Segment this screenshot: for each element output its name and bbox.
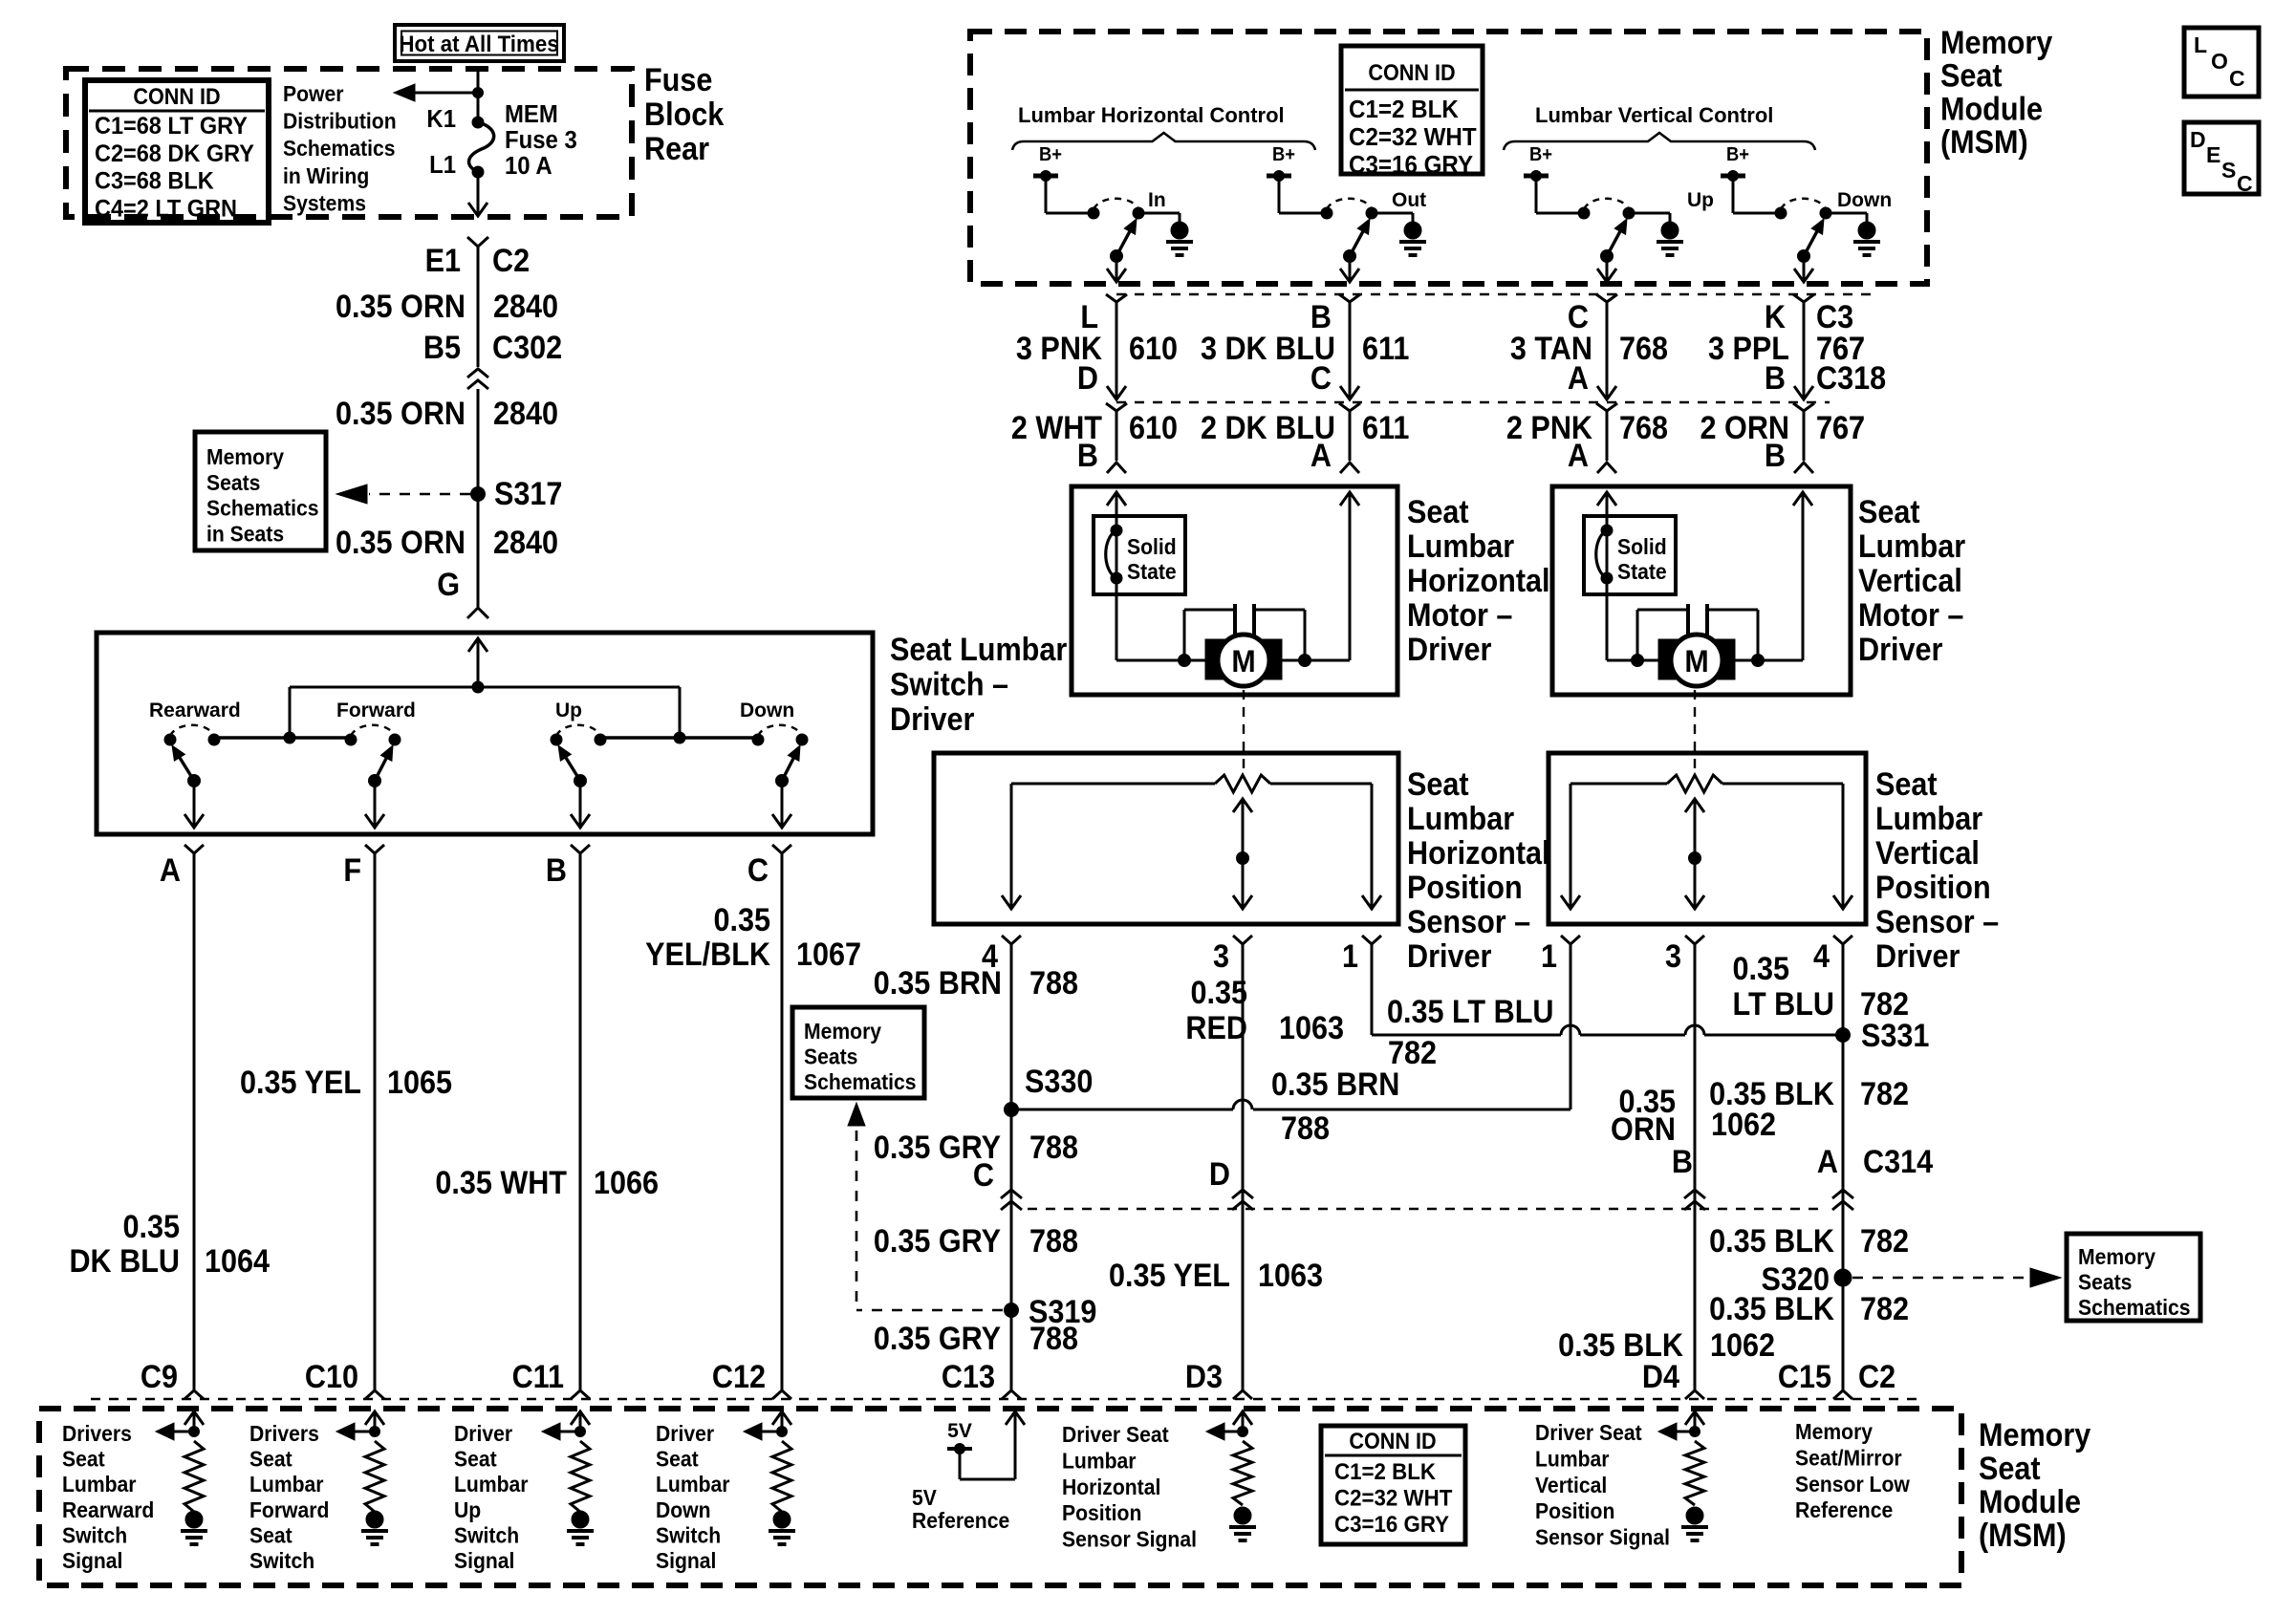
svg-text:782: 782 (1860, 1291, 1909, 1327)
svg-text:Drivers: Drivers (62, 1421, 132, 1446)
svg-text:C: C (973, 1157, 994, 1194)
svg-text:G: G (437, 567, 460, 603)
svg-text:CONN ID: CONN ID (133, 83, 220, 109)
svg-text:Sensor Signal: Sensor Signal (1062, 1527, 1197, 1552)
wire: fuse output with down arrow (477, 172, 480, 215)
svg-text:0.35 YEL: 0.35 YEL (1109, 1258, 1230, 1294)
splice S330 (1005, 1103, 1019, 1117)
svg-text:5V: 5V (912, 1485, 937, 1510)
svg-text:Lumbar: Lumbar (1875, 801, 1983, 837)
svg-text:0.35 BRN: 0.35 BRN (874, 965, 1002, 1001)
svg-text:Down: Down (1837, 189, 1892, 211)
svg-text:C3=68 BLK: C3=68 BLK (95, 168, 214, 195)
svg-text:Seat: Seat (1875, 766, 1938, 803)
svg-text:Sensor –: Sensor – (1875, 904, 1999, 940)
svg-text:B+: B+ (1726, 144, 1749, 165)
splice S331 (1836, 1028, 1851, 1043)
module box: Memory Seat Module (MSM) bottom (39, 1409, 1961, 1585)
svg-text:C2=68 DK GRY: C2=68 DK GRY (95, 140, 254, 167)
svg-text:C: C (1310, 360, 1332, 397)
dashed link: vertical motor to position sensor (1694, 690, 1696, 776)
position sensor: Seat Lumbar Vertical Position Sensor - Driver (1549, 753, 1866, 924)
svg-text:C2=32 WHT: C2=32 WHT (1349, 123, 1477, 151)
svg-text:Reference: Reference (1795, 1497, 1893, 1522)
wire: switch common entry arrow (468, 638, 487, 652)
svg-text:M: M (1231, 644, 1255, 678)
wire: ORN 2840 segment E1-C2 to B5-C302 (477, 247, 480, 367)
svg-text:0.35 YEL: 0.35 YEL (240, 1065, 361, 1101)
svg-text:1: 1 (1342, 938, 1358, 975)
svg-text:Driver Seat: Driver Seat (1062, 1422, 1169, 1447)
svg-text:A: A (160, 852, 181, 889)
svg-text:Position: Position (1407, 870, 1523, 906)
svg-text:Switch –: Switch – (890, 666, 1008, 702)
svg-text:1062: 1062 (1711, 1107, 1776, 1143)
svg-text:Driver: Driver (1875, 938, 1960, 975)
svg-text:C: C (2237, 171, 2253, 196)
svg-text:Lumbar: Lumbar (1535, 1447, 1610, 1472)
svg-text:C314: C314 (1863, 1144, 1933, 1180)
svg-text:4: 4 (1813, 938, 1830, 975)
page ref box: LOC (2184, 28, 2259, 97)
svg-text:RED: RED (1185, 1010, 1247, 1046)
wire: link up-down contacts (600, 736, 757, 740)
svg-text:2840: 2840 (493, 525, 558, 561)
svg-text:A: A (1817, 1144, 1838, 1180)
svg-text:C1=2 BLK: C1=2 BLK (1334, 1458, 1436, 1484)
reference box: Memory Seats Schematics (right) (2067, 1234, 2200, 1321)
svg-text:C3=16 GRY: C3=16 GRY (1334, 1511, 1450, 1537)
svg-text:Seats: Seats (2078, 1270, 2132, 1295)
svg-text:MEM: MEM (505, 100, 558, 128)
connector + wire: switch pin C (772, 845, 791, 853)
svg-text:C302: C302 (492, 330, 562, 366)
wire column K: 3 PPL 767 / 2 ORN 767 (1793, 294, 1814, 302)
connector id table (MSM bottom) (1321, 1426, 1465, 1544)
svg-text:Forward: Forward (336, 700, 416, 721)
svg-text:788: 788 (1029, 1223, 1078, 1260)
svg-text:Lumbar Vertical Control: Lumbar Vertical Control (1535, 103, 1773, 127)
svg-text:Seats: Seats (206, 470, 260, 495)
svg-text:Horizontal: Horizontal (1407, 835, 1550, 872)
wire column C: 3 TAN 768 / 2 PNK 768 (1596, 294, 1617, 302)
connector: sensor pin 4 at x=1058 (1002, 936, 1021, 944)
svg-text:Seats: Seats (804, 1044, 857, 1069)
svg-text:610: 610 (1129, 410, 1178, 446)
svg-text:0.35: 0.35 (1190, 975, 1247, 1011)
svg-text:Driver: Driver (1407, 632, 1492, 668)
svg-text:C4=2 LT GRN: C4=2 LT GRN (95, 196, 237, 223)
dashed link: horizontal motor to position sensor (1243, 690, 1245, 776)
svg-text:O: O (2211, 49, 2228, 74)
svg-text:1065: 1065 (387, 1065, 452, 1101)
svg-text:Solid: Solid (1127, 534, 1177, 559)
wire: vertical sensor pin 3 column (ORN 1062) (1694, 944, 1697, 1390)
connector: switch pin G (467, 608, 488, 618)
svg-text:C1=2 BLK: C1=2 BLK (1349, 96, 1459, 123)
svg-text:Up: Up (454, 1497, 481, 1522)
svg-text:A: A (1568, 438, 1589, 474)
svg-text:Seat: Seat (1407, 494, 1469, 530)
wire: vertical sensor pin 1 to S330 branch (1570, 944, 1572, 1109)
svg-text:3: 3 (1665, 938, 1681, 975)
svg-text:C11: C11 (512, 1359, 564, 1395)
svg-text:Driver: Driver (890, 701, 975, 738)
svg-text:Seat: Seat (656, 1447, 699, 1472)
svg-text:C2: C2 (492, 243, 530, 279)
svg-text:Block: Block (644, 97, 725, 133)
svg-text:0.35 BLK: 0.35 BLK (1709, 1223, 1834, 1260)
svg-text:1066: 1066 (594, 1165, 659, 1201)
svg-text:782: 782 (1860, 1223, 1909, 1260)
svg-text:Seat: Seat (1979, 1451, 2041, 1487)
svg-text:A: A (1568, 360, 1589, 397)
svg-text:D: D (1209, 1156, 1230, 1193)
connector: sensor pin 3 at x=1773 (1685, 936, 1704, 944)
splice S320 (1834, 1269, 1852, 1286)
svg-text:Vertical: Vertical (1875, 835, 1980, 872)
svg-text:0.35 LT BLU: 0.35 LT BLU (1387, 994, 1553, 1030)
svg-text:L1: L1 (429, 151, 456, 179)
svg-text:611: 611 (1362, 410, 1409, 446)
svg-text:LT BLU: LT BLU (1733, 986, 1834, 1023)
svg-text:Signal: Signal (656, 1548, 716, 1573)
svg-text:Module: Module (1979, 1484, 2081, 1520)
connector: sensor pin 1 at x=1435 (1362, 936, 1381, 944)
connector id table (fuse block): C1=68 LT GRY etc (85, 80, 269, 223)
svg-text:Seat: Seat (1407, 766, 1469, 803)
connector + wire: switch pin A (184, 845, 204, 853)
svg-text:Rear: Rear (644, 131, 709, 167)
svg-text:Lumbar: Lumbar (1858, 528, 1966, 565)
svg-text:S330: S330 (1025, 1064, 1093, 1100)
svg-text:E: E (2206, 142, 2220, 167)
svg-text:Memory: Memory (1979, 1417, 2090, 1453)
reference box: Memory Seats Schematics (mid) (792, 1007, 924, 1098)
svg-text:Seat: Seat (249, 1447, 292, 1472)
svg-text:1067: 1067 (796, 937, 861, 973)
wire: sensor signal D column (YEL 1063) (1242, 944, 1245, 1390)
connector line: MSM C2 row (1116, 293, 1872, 295)
svg-text:Position: Position (1062, 1500, 1141, 1525)
svg-text:State: State (1617, 559, 1667, 584)
svg-text:Motor –: Motor – (1407, 597, 1512, 634)
svg-text:Vertical: Vertical (1858, 563, 1962, 599)
svg-text:Sensor Low: Sensor Low (1795, 1472, 1911, 1497)
svg-text:D: D (1077, 360, 1098, 397)
svg-text:C2=32 WHT: C2=32 WHT (1334, 1485, 1452, 1511)
svg-text:Seat: Seat (1858, 494, 1920, 530)
svg-text:Lumbar: Lumbar (62, 1472, 137, 1497)
svg-text:788: 788 (1029, 1321, 1078, 1357)
svg-text:C: C (747, 852, 769, 889)
connector + wire: switch pin B (571, 845, 590, 853)
svg-text:C13: C13 (942, 1359, 995, 1395)
label box: Hot at All Times (395, 25, 564, 61)
svg-text:0.35 ORN: 0.35 ORN (336, 396, 466, 432)
svg-text:B: B (1765, 360, 1786, 397)
svg-text:Down: Down (656, 1497, 711, 1522)
svg-text:Seat: Seat (1940, 57, 2003, 94)
svg-text:1: 1 (1541, 938, 1557, 975)
svg-text:788: 788 (1029, 1130, 1078, 1166)
dashed reference arrow to S317 (369, 493, 470, 496)
svg-text:Switch: Switch (656, 1523, 721, 1548)
svg-text:0.35 GRY: 0.35 GRY (874, 1223, 1002, 1260)
svg-text:Driver: Driver (1407, 938, 1492, 975)
svg-text:Lumbar: Lumbar (1407, 528, 1515, 565)
svg-text:Signal: Signal (62, 1548, 122, 1573)
svg-text:D: D (2190, 127, 2206, 152)
svg-text:Seat Lumbar: Seat Lumbar (890, 632, 1068, 668)
svg-text:Down: Down (740, 700, 794, 721)
svg-text:0.35 BLK: 0.35 BLK (1709, 1291, 1834, 1327)
wire: link rearward-forward contacts (213, 736, 351, 740)
svg-text:1063: 1063 (1258, 1258, 1323, 1294)
connector line: C318 row (1116, 401, 1830, 403)
svg-text:0.35 WHT: 0.35 WHT (435, 1165, 567, 1201)
wire: switch common bus (290, 686, 680, 689)
svg-text:768: 768 (1619, 331, 1668, 367)
svg-text:Memory: Memory (2078, 1244, 2156, 1269)
fuse block rear dashed box (66, 69, 632, 217)
svg-text:Motor –: Motor – (1858, 597, 1963, 634)
svg-text:611: 611 (1362, 331, 1409, 367)
svg-text:Lumbar Horizontal Control: Lumbar Horizontal Control (1018, 103, 1285, 127)
svg-text:Memory: Memory (1795, 1419, 1874, 1444)
component box: Seat Lumbar Switch - Driver (97, 633, 873, 834)
svg-text:782: 782 (1860, 986, 1909, 1023)
svg-text:Fuse: Fuse (644, 62, 712, 98)
wire: vertical sensor pin 4 column (BLK 782) (1842, 944, 1845, 1390)
svg-text:K1: K1 (426, 105, 456, 133)
svg-text:Forward: Forward (249, 1497, 329, 1522)
page ref box: DESC (2184, 122, 2259, 194)
dashed reference arrow from S320 (1852, 1277, 2026, 1280)
svg-text:Drivers: Drivers (249, 1421, 319, 1446)
svg-text:C2: C2 (1858, 1359, 1895, 1395)
svg-text:CONN ID: CONN ID (1368, 59, 1455, 85)
svg-text:Memory: Memory (804, 1019, 882, 1044)
svg-text:C1=68 LT GRY: C1=68 LT GRY (95, 113, 248, 140)
position sensor: Seat Lumbar Horizontal Position Sensor - Driver (934, 753, 1398, 924)
svg-text:in Wiring: in Wiring (283, 163, 369, 188)
svg-text:F: F (343, 852, 361, 889)
svg-text:DK BLU: DK BLU (69, 1243, 180, 1280)
svg-text:B: B (1765, 438, 1786, 474)
svg-text:Schematics: Schematics (206, 496, 319, 521)
svg-text:Schematics: Schematics (804, 1069, 917, 1094)
svg-text:5V: 5V (947, 1420, 972, 1442)
svg-text:B5: B5 (423, 330, 461, 366)
svg-text:2840: 2840 (493, 289, 558, 325)
svg-text:C10: C10 (305, 1359, 358, 1395)
svg-text:Switch: Switch (454, 1523, 519, 1548)
svg-text:C: C (2229, 66, 2245, 91)
svg-text:Up: Up (555, 700, 582, 721)
svg-text:B+: B+ (1529, 144, 1552, 165)
svg-text:Rearward: Rearward (62, 1497, 154, 1522)
connector: fuse block exit (467, 237, 488, 247)
svg-text:767: 767 (1816, 410, 1865, 446)
svg-text:Horizontal: Horizontal (1407, 563, 1550, 599)
svg-text:Switch: Switch (62, 1523, 127, 1548)
svg-text:Memory: Memory (206, 444, 285, 469)
svg-text:0.35 GRY: 0.35 GRY (874, 1321, 1002, 1357)
connector: sensor pin 1 at x=1643 (1561, 936, 1580, 944)
svg-text:(MSM): (MSM) (1979, 1518, 2067, 1554)
svg-text:Up: Up (1687, 189, 1714, 211)
wire: ORN 2840 segment to switch (477, 494, 480, 607)
svg-text:Driver Seat: Driver Seat (1535, 1420, 1642, 1445)
svg-text:788: 788 (1029, 965, 1078, 1001)
svg-text:Seat: Seat (454, 1447, 497, 1472)
svg-text:ORN: ORN (1611, 1111, 1676, 1148)
svg-text:C12: C12 (712, 1359, 766, 1395)
svg-text:Rearward: Rearward (149, 700, 241, 721)
svg-text:Driver: Driver (1858, 632, 1943, 668)
svg-text:Out: Out (1392, 189, 1426, 211)
svg-text:Systems: Systems (283, 191, 366, 216)
svg-text:Vertical: Vertical (1535, 1473, 1607, 1497)
svg-text:D4: D4 (1642, 1359, 1679, 1395)
svg-text:C15: C15 (1778, 1359, 1831, 1395)
svg-text:788: 788 (1281, 1110, 1330, 1147)
svg-text:S317: S317 (494, 476, 562, 512)
svg-text:Memory: Memory (1940, 25, 2052, 61)
svg-text:782: 782 (1860, 1076, 1909, 1112)
svg-text:2840: 2840 (493, 396, 558, 432)
svg-text:Lumbar: Lumbar (1062, 1449, 1137, 1474)
svg-text:CONN ID: CONN ID (1349, 1428, 1436, 1453)
svg-text:C3=16 GRY: C3=16 GRY (1349, 151, 1473, 179)
svg-text:L: L (2194, 32, 2207, 57)
svg-text:Lumbar: Lumbar (454, 1472, 529, 1497)
wire column B: 3 DK BLU 611 / 2 DK BLU 611 (1339, 294, 1360, 302)
svg-text:Fuse 3: Fuse 3 (505, 126, 577, 154)
svg-text:Sensor –: Sensor – (1407, 904, 1530, 940)
svg-text:3: 3 (1213, 938, 1229, 975)
svg-text:Position: Position (1875, 870, 1991, 906)
svg-text:D3: D3 (1185, 1359, 1223, 1395)
connector line: MSM bottom row (91, 1398, 1917, 1400)
svg-text:610: 610 (1129, 331, 1178, 367)
svg-text:E1: E1 (425, 243, 461, 279)
svg-text:A: A (1310, 438, 1332, 474)
svg-text:768: 768 (1619, 410, 1668, 446)
svg-text:C9: C9 (141, 1359, 178, 1395)
svg-text:Distribution: Distribution (283, 109, 397, 134)
svg-text:Lumbar: Lumbar (249, 1472, 324, 1497)
wire: 5V ref C13 column (GRY 788) (1010, 944, 1013, 1390)
svg-text:1063: 1063 (1279, 1010, 1344, 1046)
wire: LT BLU 782 from horizontal sensor pin 1 (1371, 944, 1374, 1035)
wire column L: 3 PNK 610 / 2 WHT 610 (1106, 294, 1127, 302)
reference box: Memory Seats Schematics in Seats (195, 432, 326, 550)
wire: hot feed into fuse block (477, 71, 480, 122)
svg-text:1064: 1064 (205, 1243, 270, 1280)
svg-text:0.35 BRN: 0.35 BRN (1271, 1066, 1399, 1103)
svg-text:Seat: Seat (62, 1447, 105, 1472)
connector: sensor pin 3 at x=1300 (1233, 936, 1252, 944)
svg-text:Lumbar: Lumbar (1407, 801, 1515, 837)
svg-text:Schematics: Schematics (2078, 1295, 2191, 1320)
svg-text:Driver: Driver (454, 1421, 512, 1446)
svg-text:B: B (546, 852, 567, 889)
svg-text:0.35 ORN: 0.35 ORN (336, 525, 466, 561)
svg-text:(MSM): (MSM) (1940, 124, 2028, 161)
svg-text:State: State (1127, 559, 1177, 584)
svg-text:10 A: 10 A (505, 152, 552, 180)
motor: Seat Lumbar Horizontal Motor - Driver (1072, 486, 1397, 695)
svg-text:Signal: Signal (454, 1548, 514, 1573)
svg-text:Power: Power (283, 81, 344, 106)
svg-text:Switch: Switch (249, 1548, 314, 1573)
svg-text:in Seats: in Seats (206, 522, 284, 547)
svg-text:B: B (1077, 438, 1098, 474)
svg-text:C318: C318 (1816, 360, 1886, 397)
svg-text:S: S (2221, 158, 2236, 183)
in-line connector C314 (1001, 1190, 1022, 1198)
connector: sensor pin 4 at x=1928 (1833, 936, 1852, 944)
svg-text:Seat/Mirror: Seat/Mirror (1795, 1446, 1902, 1471)
svg-text:Solid: Solid (1617, 534, 1667, 559)
wire: ORN 2840 segment to S317 (477, 389, 480, 494)
svg-text:In: In (1148, 189, 1166, 211)
svg-text:YEL/BLK: YEL/BLK (645, 937, 770, 973)
arrow to power distribution (left) (409, 92, 478, 95)
svg-text:Hot at All Times: Hot at All Times (399, 31, 558, 56)
svg-text:Sensor Signal: Sensor Signal (1535, 1525, 1670, 1550)
svg-text:0.35: 0.35 (713, 902, 770, 938)
svg-text:Schematics: Schematics (283, 136, 396, 161)
svg-text:1062: 1062 (1710, 1327, 1775, 1364)
svg-text:B+: B+ (1272, 144, 1295, 165)
svg-text:B+: B+ (1039, 144, 1062, 165)
svg-text:0.35: 0.35 (1732, 951, 1789, 987)
svg-text:Seat: Seat (249, 1523, 292, 1548)
svg-text:S331: S331 (1861, 1018, 1929, 1054)
svg-text:Module: Module (1940, 91, 2043, 127)
connector id table (MSM top): C1=2 BLK C2=32 WHT C3=16 GRY (1341, 46, 1483, 174)
svg-text:0.35: 0.35 (122, 1209, 180, 1245)
connector + wire: switch pin F (365, 845, 384, 853)
svg-text:M: M (1684, 644, 1708, 678)
svg-text:Driver: Driver (656, 1421, 714, 1446)
dashed reference arrow from S319 (856, 1309, 1003, 1312)
in-line connector C302 (467, 369, 488, 377)
svg-text:Lumbar: Lumbar (656, 1472, 730, 1497)
svg-text:0.35 ORN: 0.35 ORN (336, 289, 466, 325)
splice S319 (1005, 1303, 1019, 1318)
svg-text:B: B (1672, 1144, 1693, 1180)
splice S317 (471, 487, 486, 502)
svg-text:Horizontal: Horizontal (1062, 1475, 1160, 1499)
svg-text:Position: Position (1535, 1498, 1614, 1523)
motor: Seat Lumbar Vertical Motor - Driver (1552, 486, 1851, 695)
svg-text:Reference: Reference (912, 1508, 1009, 1533)
module box: Memory Seat Module (MSM) top (970, 32, 1927, 284)
